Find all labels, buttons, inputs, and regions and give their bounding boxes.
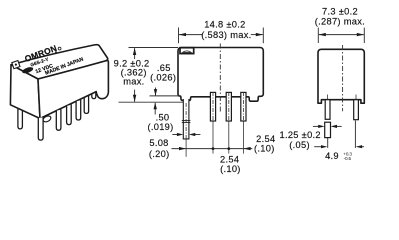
- pin 4 (front view): [241, 92, 246, 121]
- svg-text:(.20): (.20): [149, 149, 170, 159]
- side pin right: [354, 100, 359, 120]
- arrow 7.3 right: [357, 33, 364, 36]
- extension left pin center: [327, 138, 329, 148]
- 9.2 dim verticals: [134, 48, 136, 59]
- chain dots: [212, 147, 215, 150]
- dim line 14.8: [179, 34, 202, 36]
- svg-text:2.54: 2.54: [256, 134, 275, 144]
- svg-text:(.019): (.019): [147, 122, 173, 132]
- arrow 14.8 left: [179, 33, 186, 36]
- front pin d: [67, 105, 72, 125]
- svg-text:(.026): (.026): [150, 72, 176, 82]
- arrow 4.9 left: [321, 145, 327, 148]
- arrow 4.9 right: [356, 145, 362, 148]
- trademark dot: [58, 47, 61, 50]
- pin-1 corner marker square: [12, 61, 20, 69]
- front pin b: [38, 117, 43, 140]
- left foot ellipse: [42, 115, 52, 123]
- svg-text:(.287) max.: (.287) max.: [315, 17, 365, 27]
- arrow 14.8 right: [256, 33, 263, 36]
- arrow 1.25 left: [318, 125, 324, 128]
- leader: body bottom: [150, 95, 181, 97]
- arrow .50 right: [189, 133, 195, 136]
- svg-text:.50: .50: [156, 112, 170, 122]
- relay left end face: [10, 65, 40, 119]
- side pin left (upper): [325, 100, 330, 120]
- svg-text:14.8 ±0.2: 14.8 ±0.2: [204, 19, 245, 29]
- front pin e: [76, 100, 81, 120]
- relay front face: [38, 61, 108, 119]
- svg-text:1.25 ±0.2: 1.25 ±0.2: [279, 130, 320, 140]
- svg-text:7.3 ±0.2: 7.3 ±0.2: [322, 6, 358, 16]
- logo period: [55, 51, 57, 53]
- 5.08 dim line: [172, 148, 253, 150]
- arrow 5.08: [179, 147, 186, 150]
- arrow 2.54 right-end: [244, 147, 251, 150]
- back pin g stub: [92, 90, 96, 99]
- brand oval mark: [21, 66, 34, 75]
- extension ticks 14.8: [178, 28, 180, 44]
- arrow 9.2 top: [133, 48, 136, 55]
- svg-text:max.: max.: [123, 77, 144, 87]
- 9.2 top leader: [129, 47, 179, 49]
- centerline side view: [342, 45, 344, 111]
- dim line 7.3: [319, 34, 364, 36]
- svg-text:5.08: 5.08: [149, 138, 168, 148]
- indicator notch (black): [180, 48, 194, 54]
- .65 dim verticals: [155, 88, 157, 96]
- leader: seating plane: [119, 101, 184, 103]
- arrow 9.2 bottom: [133, 95, 136, 102]
- arrow .65 down: [154, 89, 157, 96]
- extension right pin center: [354, 121, 356, 148]
- svg-text:(.05): (.05): [289, 140, 310, 150]
- relay top face: [11, 45, 108, 79]
- arrow .65 up: [154, 103, 157, 110]
- extension ticks 7.3: [317, 28, 319, 43]
- arrow 7.3 left: [319, 33, 326, 36]
- arrow .50 left: [177, 133, 183, 136]
- front pin c: [56, 110, 61, 131]
- svg-text:(.583) max.: (.583) max.: [201, 30, 251, 40]
- arrowheads front view dims: [133, 33, 263, 150]
- back pin a: [18, 109, 23, 129]
- pin root tick left: [327, 95, 329, 100]
- pin 2 (front view): [210, 92, 215, 121]
- side pin left (lower piece): [325, 122, 331, 137]
- centerline front view: [219, 44, 221, 113]
- arrow 1.25 right: [331, 125, 337, 128]
- back pin f: [84, 95, 88, 113]
- 1.25 arrow lines: [313, 125, 319, 127]
- svg-text:(.10): (.10): [254, 143, 275, 153]
- side view body outline: [318, 49, 364, 103]
- front view body outline: [178, 48, 263, 102]
- svg-text:4.9: 4.9: [325, 151, 339, 161]
- pin 3 (front view): [226, 92, 231, 121]
- arrowheads side view dims: [318, 33, 364, 148]
- .50 arrow lines: [172, 134, 179, 136]
- pin 1 thin (front view): [183, 99, 189, 139]
- svg-text:(.10): (.10): [220, 164, 241, 174]
- pin root tick right: [355, 95, 357, 100]
- dimensions: side view: [313, 28, 364, 148]
- svg-text:-0.5: -0.5: [344, 156, 352, 161]
- 4.9 arrow lines: [314, 146, 321, 148]
